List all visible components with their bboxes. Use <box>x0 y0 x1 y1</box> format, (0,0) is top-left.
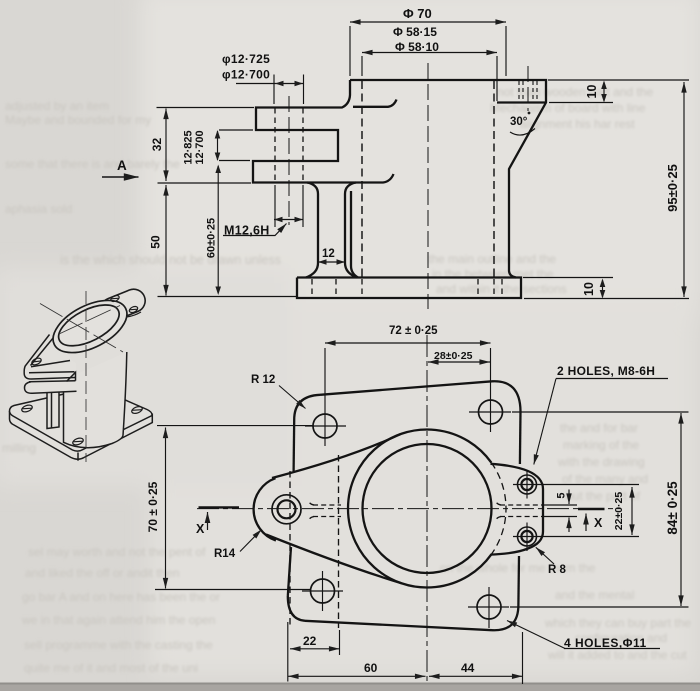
svg-text:R 8: R 8 <box>548 564 567 576</box>
svg-text:30°: 30° <box>510 116 528 128</box>
svg-text:2 HOLES, M8-6H: 2 HOLES, M8-6H <box>557 364 655 378</box>
svg-text:sell programme with the castin: sell programme with the casting the <box>24 638 213 652</box>
svg-text:not than wooden part and the: not than wooden part and the <box>497 85 653 99</box>
svg-text:22: 22 <box>303 634 317 648</box>
svg-text:we in that again attend him th: we in that again attend him the open <box>21 613 215 627</box>
svg-text:aphasia sold: aphasia sold <box>5 202 72 216</box>
svg-text:5: 5 <box>555 492 567 498</box>
svg-text:A: A <box>117 158 127 173</box>
svg-text:60: 60 <box>364 661 378 675</box>
svg-text:of the many and: of the many and <box>562 472 648 486</box>
svg-text:with the drawing: with the drawing <box>557 455 645 469</box>
svg-text:10: 10 <box>582 282 596 296</box>
svg-text:72 ± 0·25: 72 ± 0·25 <box>389 325 438 337</box>
svg-text:the and for bar: the and for bar <box>560 421 638 435</box>
svg-text:Φ 70: Φ 70 <box>403 6 432 21</box>
svg-text:X: X <box>196 522 205 536</box>
svg-text:which they can buy part the: which they can buy part the <box>544 616 691 630</box>
svg-text:quite me of it and most of the: quite me of it and most of the uni <box>24 661 198 675</box>
svg-text:marking of the: marking of the <box>563 438 639 452</box>
svg-text:44: 44 <box>461 661 475 675</box>
svg-text:R 12: R 12 <box>251 374 275 386</box>
svg-text:milling: milling <box>2 441 36 455</box>
svg-text:84± 0·25: 84± 0·25 <box>665 481 680 535</box>
svg-text:but the part of: but the part of <box>566 489 641 503</box>
svg-text:some that there is and barely: some that there is and barely the <box>5 157 180 171</box>
svg-text:28±0·25: 28±0·25 <box>434 350 473 362</box>
svg-text:50: 50 <box>149 235 163 249</box>
svg-text:and the mental: and the mental <box>555 588 634 602</box>
svg-text:12·825: 12·825 <box>182 130 194 164</box>
svg-text:22±0·25: 22±0·25 <box>613 492 625 531</box>
svg-text:95±0·25: 95±0·25 <box>665 164 680 212</box>
svg-text:Maybe and bounded for my: Maybe and bounded for my <box>5 113 151 127</box>
svg-text:R14: R14 <box>214 548 236 560</box>
svg-text:X: X <box>594 516 603 530</box>
svg-text:φ12·725: φ12·725 <box>222 52 270 66</box>
svg-text:12·700: 12·700 <box>194 130 206 164</box>
svg-text:70 ± 0·25: 70 ± 0·25 <box>146 481 160 532</box>
svg-text:will it added to and the cut: will it added to and the cut <box>547 648 687 662</box>
svg-text:10: 10 <box>585 85 599 99</box>
svg-text:in the between met the: in the between met the <box>432 267 554 281</box>
svg-text:φ12·700: φ12·700 <box>222 68 270 82</box>
svg-text:12: 12 <box>322 248 335 260</box>
svg-text:adjusted by an item: adjusted by an item <box>5 99 109 113</box>
svg-text:Φ 58·15: Φ 58·15 <box>393 25 437 39</box>
svg-text:60±0·25: 60±0·25 <box>205 218 217 258</box>
svg-text:sel may worth and not the pent: sel may worth and not the pent of <box>28 545 206 559</box>
svg-text:is the which should not be dra: is the which should not be drawn unless <box>60 253 281 267</box>
svg-text:the main outline and the: the main outline and the <box>428 252 556 266</box>
svg-text:M12,6H: M12,6H <box>224 224 270 238</box>
svg-text:and liked the off or andit th: and liked the off or andit then <box>25 566 180 580</box>
svg-text:go bar A and on here has been: go bar A and on here has been the or <box>22 590 220 604</box>
svg-text:4 HOLES,Φ11: 4 HOLES,Φ11 <box>564 636 647 650</box>
svg-text:32: 32 <box>150 138 164 152</box>
svg-text:Φ 58·10: Φ 58·10 <box>395 40 439 54</box>
